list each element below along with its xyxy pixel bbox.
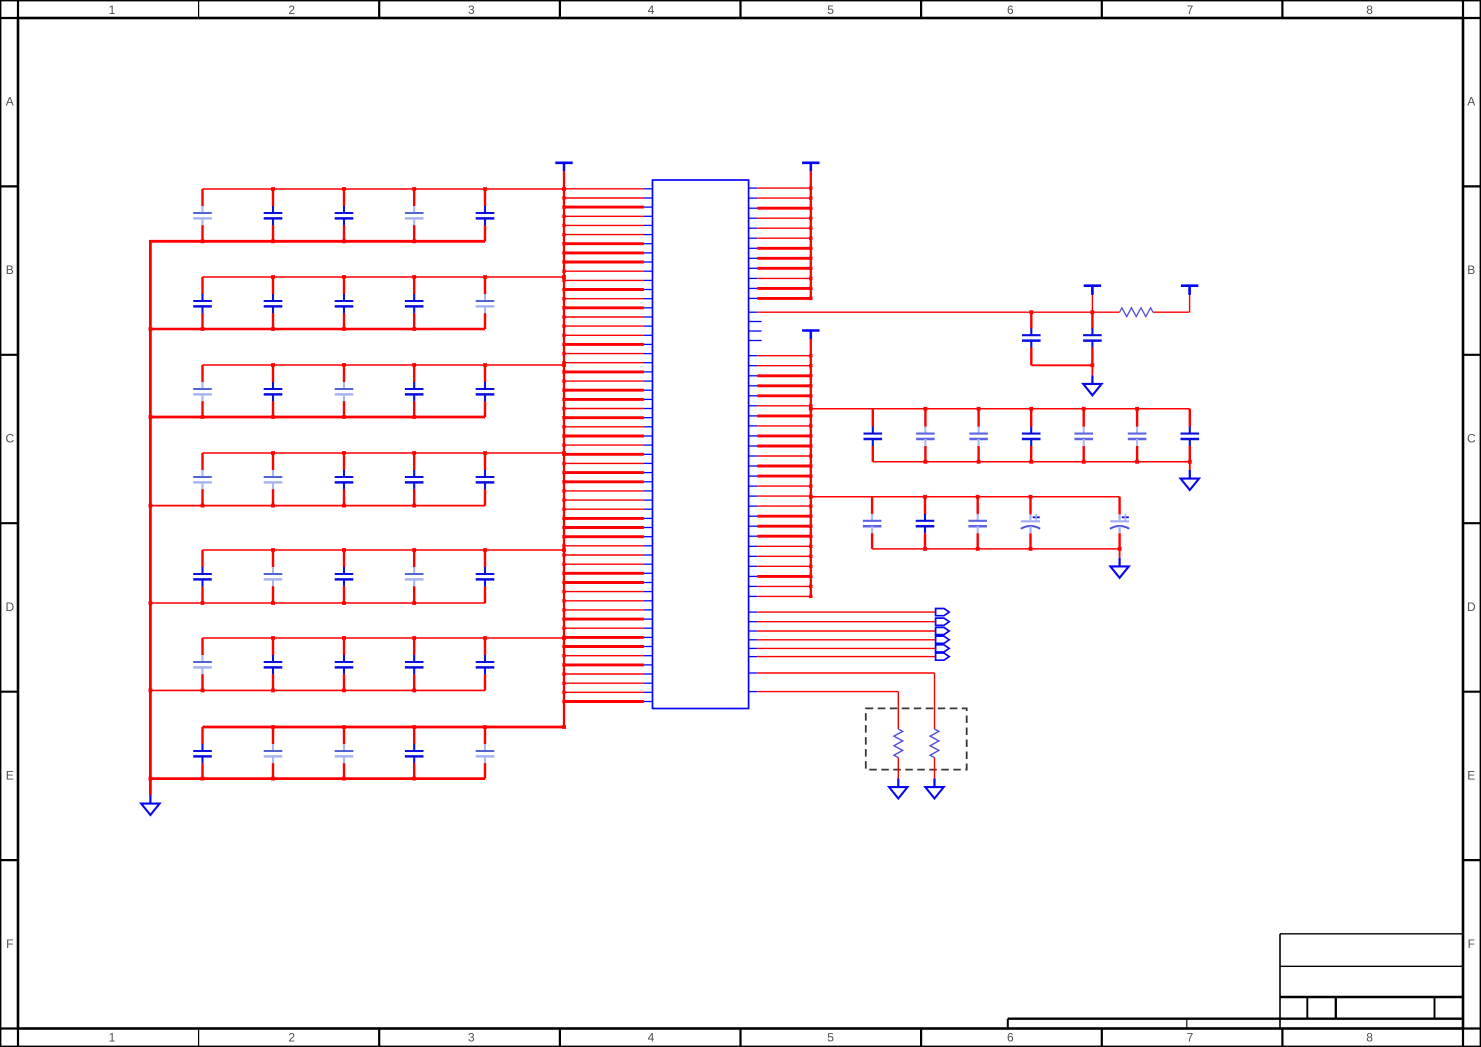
capacitor C17 — [264, 453, 283, 506]
junction — [201, 689, 205, 693]
wire — [564, 453, 644, 456]
wire — [564, 691, 644, 693]
pin 56 — [644, 691, 653, 693]
wire — [757, 384, 811, 387]
pin — [749, 565, 758, 567]
junction — [1029, 547, 1033, 551]
wire — [564, 288, 644, 291]
wire — [564, 234, 644, 236]
pin — [749, 445, 758, 447]
wire — [564, 188, 644, 190]
wire — [757, 365, 811, 367]
junction — [412, 777, 416, 781]
wire — [564, 554, 644, 556]
wire — [149, 240, 485, 243]
pin — [749, 545, 758, 547]
capacitor C21 — [193, 550, 212, 603]
wire — [897, 758, 899, 779]
junction — [1091, 363, 1095, 367]
capacitor C35 — [476, 727, 495, 779]
wire — [564, 389, 644, 392]
wire — [564, 206, 644, 209]
junction — [342, 689, 346, 693]
junction — [562, 389, 565, 392]
pin 37 — [644, 517, 653, 519]
svg-text:4: 4 — [648, 1031, 655, 1045]
pin 54 — [644, 673, 653, 675]
pin — [749, 267, 758, 269]
junction — [562, 451, 565, 454]
junction — [562, 498, 565, 501]
pin — [749, 656, 758, 658]
capacitor C18 — [335, 453, 354, 506]
junction — [562, 324, 565, 327]
wire — [564, 426, 644, 428]
junction — [412, 451, 416, 455]
title block — [1008, 934, 1463, 1029]
wire — [757, 297, 811, 300]
junction — [562, 275, 566, 279]
junction — [562, 682, 565, 685]
capacitor C30 — [476, 638, 495, 690]
junction — [562, 363, 566, 367]
svg-text:1: 1 — [109, 3, 116, 17]
pin — [749, 630, 758, 632]
junction — [342, 451, 346, 455]
junction — [809, 595, 812, 598]
wire — [757, 465, 811, 468]
junction — [1029, 407, 1033, 411]
capacitor C43 — [1128, 409, 1147, 462]
wire — [757, 434, 811, 437]
capacitor C26 — [193, 638, 212, 690]
wire — [564, 444, 644, 446]
power flag VCC — [802, 163, 819, 172]
svg-text:3: 3 — [468, 1031, 475, 1045]
capacitor C23 — [335, 550, 354, 603]
pin 20 — [644, 362, 653, 364]
capacitor C33 — [335, 727, 354, 779]
wire — [564, 480, 644, 483]
pin — [749, 355, 758, 357]
wire — [564, 251, 644, 254]
svg-text:2: 2 — [288, 3, 295, 17]
capacitor C24 — [405, 550, 424, 603]
pin 1 — [644, 188, 653, 190]
junction — [562, 370, 565, 373]
wire — [564, 362, 644, 364]
wire — [203, 637, 565, 639]
junction — [562, 379, 565, 382]
junction — [412, 601, 416, 605]
junction — [809, 464, 812, 467]
junction — [412, 548, 416, 552]
pin 57 — [644, 701, 653, 703]
pin — [749, 647, 758, 649]
junction — [562, 361, 565, 364]
wire — [564, 535, 644, 538]
wire — [564, 490, 644, 492]
wire — [757, 355, 811, 357]
pin 46 — [644, 600, 653, 602]
pin 5 — [644, 224, 653, 226]
connector pin P4 — [936, 636, 950, 643]
junction — [809, 407, 813, 411]
wire — [757, 647, 935, 649]
junction — [271, 415, 275, 419]
svg-text:F: F — [6, 937, 13, 951]
capacitor C13 — [335, 365, 354, 417]
junction — [562, 590, 565, 593]
junction — [201, 504, 205, 508]
junction — [562, 672, 565, 675]
junction — [149, 777, 153, 781]
junction — [271, 601, 275, 605]
junction — [562, 691, 565, 694]
junction — [342, 636, 346, 640]
pin — [749, 365, 758, 367]
wire — [1091, 365, 1093, 375]
pin — [749, 257, 758, 259]
wire — [1189, 462, 1191, 470]
connector pin P2 — [936, 618, 950, 625]
junction — [809, 354, 812, 357]
junction — [412, 363, 416, 367]
pin 33 — [644, 481, 653, 483]
wire — [564, 645, 644, 648]
wire — [149, 241, 152, 795]
pin 51 — [644, 646, 653, 648]
pin 45 — [644, 591, 653, 593]
junction — [342, 601, 346, 605]
ground — [1110, 558, 1128, 578]
pin 55 — [644, 682, 653, 684]
wire — [757, 495, 811, 497]
pin 48 — [644, 618, 653, 620]
junction — [342, 187, 346, 191]
svg-text:F: F — [1468, 937, 1475, 951]
pin 42 — [644, 563, 653, 565]
svg-text:4: 4 — [648, 3, 655, 17]
junction — [562, 434, 565, 437]
junction — [1029, 460, 1033, 464]
junction — [562, 654, 565, 657]
wire — [757, 187, 811, 189]
pin — [749, 197, 758, 199]
pin — [749, 297, 758, 299]
wire — [564, 306, 644, 309]
junction — [562, 334, 565, 337]
svg-text:8: 8 — [1366, 3, 1373, 17]
wire — [757, 217, 811, 219]
junction — [809, 384, 812, 387]
junction — [412, 239, 416, 243]
junction — [201, 601, 205, 605]
junction — [149, 689, 153, 693]
junction — [483, 275, 487, 279]
resistor R3 — [1120, 308, 1154, 317]
capacitor C11 — [193, 365, 212, 417]
wire — [564, 416, 644, 419]
junction — [809, 474, 812, 477]
wire — [810, 339, 812, 596]
junction — [1188, 460, 1192, 464]
wire — [203, 276, 565, 278]
junction — [562, 599, 565, 602]
junction — [562, 480, 565, 483]
pin — [749, 247, 758, 249]
junction — [809, 404, 812, 407]
junction — [149, 415, 153, 419]
capacitor C15 — [476, 365, 495, 417]
pin 13 — [644, 298, 653, 300]
svg-text:5: 5 — [827, 3, 834, 17]
junction — [562, 544, 565, 547]
wire — [757, 611, 935, 613]
pin 38 — [644, 527, 653, 529]
junction — [1029, 495, 1033, 499]
wire — [564, 581, 644, 584]
junction — [809, 297, 812, 300]
wire — [564, 526, 644, 529]
pin — [749, 405, 758, 407]
junction — [271, 548, 275, 552]
power flag VCC — [802, 331, 819, 340]
svg-text:A: A — [6, 95, 14, 109]
wire — [564, 591, 644, 593]
pin 47 — [644, 609, 653, 611]
junction — [342, 504, 346, 508]
wire — [872, 548, 1120, 550]
wire — [564, 563, 644, 565]
wire — [757, 515, 811, 518]
junction — [924, 460, 928, 464]
pin — [749, 485, 758, 487]
capacitor C46 — [916, 497, 935, 549]
wire — [873, 461, 1190, 463]
pin 35 — [644, 499, 653, 501]
pin — [749, 385, 758, 387]
junction — [562, 306, 565, 309]
wire — [564, 682, 644, 684]
wire — [757, 455, 811, 457]
junction — [342, 239, 346, 243]
wire — [564, 380, 644, 382]
junction — [809, 364, 812, 367]
wire — [564, 700, 644, 703]
pin — [749, 375, 758, 377]
wire — [564, 398, 644, 401]
junction — [342, 548, 346, 552]
wire — [564, 316, 644, 318]
junction — [1082, 460, 1086, 464]
ground — [141, 795, 159, 815]
pin — [749, 495, 758, 497]
wire — [757, 405, 811, 407]
pin 30 — [644, 453, 653, 455]
junction — [201, 327, 205, 331]
junction — [562, 636, 566, 640]
IC U1 — [653, 180, 749, 709]
connector pin P1 — [936, 609, 950, 616]
junction — [412, 725, 416, 729]
junction — [809, 494, 812, 497]
junction — [562, 315, 565, 318]
junction — [562, 398, 565, 401]
junction — [976, 495, 980, 499]
junction — [809, 555, 812, 558]
junction — [562, 462, 565, 465]
svg-text:1: 1 — [109, 1031, 116, 1045]
wire — [757, 277, 811, 279]
capacitor C29 — [405, 638, 424, 690]
wire — [564, 197, 644, 199]
junction — [342, 363, 346, 367]
wire — [934, 758, 936, 779]
capacitor C12 — [264, 365, 283, 417]
wire — [757, 414, 811, 417]
wire — [564, 572, 644, 575]
wire — [757, 445, 811, 448]
pin 24 — [644, 398, 653, 400]
pin 25 — [644, 408, 653, 410]
ground — [1181, 470, 1199, 490]
capacitor C1 — [193, 189, 212, 241]
pin 4 — [644, 215, 653, 217]
capacitor C27 — [264, 638, 283, 690]
pin (no connect) — [749, 330, 762, 332]
junction — [977, 460, 981, 464]
pin 21 — [644, 371, 653, 373]
wire — [757, 621, 935, 623]
pin 39 — [644, 536, 653, 538]
junction — [562, 517, 565, 520]
wire — [757, 257, 811, 260]
pin — [749, 465, 758, 467]
pin 6 — [644, 234, 653, 236]
wire — [757, 565, 811, 567]
svg-text:C: C — [1467, 432, 1476, 446]
pin — [749, 621, 758, 623]
power flag — [1084, 286, 1101, 295]
wire — [564, 663, 644, 666]
pin 36 — [644, 508, 653, 510]
pin (no connect) — [749, 340, 762, 342]
junction — [562, 187, 566, 191]
junction — [271, 451, 275, 455]
wire — [757, 207, 811, 210]
junction — [1118, 547, 1122, 551]
wire — [564, 609, 644, 611]
wire — [757, 374, 811, 377]
capacitor C8 — [335, 277, 354, 329]
wire — [564, 600, 644, 602]
wire — [564, 618, 644, 621]
junction — [149, 327, 153, 331]
junction — [809, 575, 812, 578]
pin 15 — [644, 316, 653, 318]
pin 27 — [644, 426, 653, 428]
junction — [562, 548, 565, 551]
capacitor C39 — [916, 409, 935, 462]
junction — [562, 352, 565, 355]
pin — [749, 595, 758, 597]
junction — [809, 374, 812, 377]
junction — [809, 196, 812, 199]
junction — [562, 251, 565, 254]
pin 3 — [644, 206, 653, 208]
wire — [1091, 288, 1093, 313]
wire — [757, 394, 811, 397]
junction — [483, 187, 487, 191]
wire — [564, 343, 644, 346]
pin — [749, 555, 758, 557]
wire — [757, 692, 898, 729]
wire — [564, 298, 644, 300]
junction — [562, 279, 565, 282]
junction — [412, 504, 416, 508]
capacitor C44 — [1181, 409, 1200, 462]
pin — [749, 575, 758, 577]
junction — [562, 187, 565, 190]
capacitor C40 — [969, 409, 988, 462]
junction — [562, 563, 565, 566]
junction — [809, 495, 813, 499]
wire — [757, 673, 934, 729]
pin — [749, 217, 758, 219]
wire — [203, 188, 565, 190]
pin — [749, 395, 758, 397]
pin — [749, 415, 758, 417]
ground — [925, 779, 943, 799]
junction — [809, 484, 812, 487]
junction — [1082, 407, 1086, 411]
junction — [271, 689, 275, 693]
junction — [562, 233, 565, 236]
pin 40 — [644, 545, 653, 547]
pin — [749, 505, 758, 507]
junction — [1135, 407, 1139, 411]
junction — [342, 777, 346, 781]
junction — [562, 553, 565, 556]
wire — [757, 545, 811, 547]
junction — [924, 407, 928, 411]
pin 11 — [644, 279, 653, 281]
wire — [757, 197, 811, 199]
junction — [977, 407, 981, 411]
svg-text:E: E — [6, 768, 14, 782]
ground — [1083, 375, 1101, 395]
capacitor C34 — [405, 727, 424, 779]
capacitor C31 — [193, 727, 212, 779]
capacitor C2 — [264, 189, 283, 241]
junction — [562, 627, 565, 630]
capacitor C48 (polarized) — [1021, 497, 1040, 549]
junction — [342, 725, 346, 729]
pin — [749, 277, 758, 279]
junction — [809, 504, 812, 507]
junction — [412, 689, 416, 693]
junction — [342, 275, 346, 279]
junction — [1091, 310, 1095, 314]
capacitor C5 — [476, 189, 495, 241]
pin — [749, 287, 758, 289]
junction — [562, 407, 565, 410]
pin — [749, 611, 758, 613]
capacitor C19 — [405, 453, 424, 506]
junction — [271, 636, 275, 640]
capacitor C41 — [1022, 409, 1041, 462]
